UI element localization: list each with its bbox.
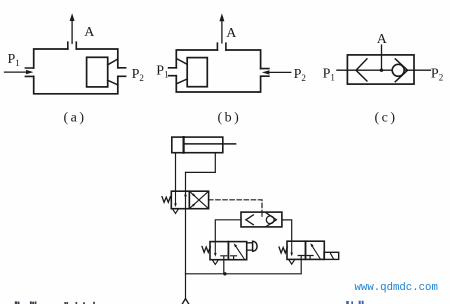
shuttle valve SV body [241, 212, 282, 227]
V1 exhaust path arrow down [174, 191, 177, 207]
valve body (b) [176, 50, 260, 92]
cylinder piston [183, 137, 185, 153]
ball seat chevron (c) [395, 59, 407, 82]
V1 exhaust triangle [172, 209, 178, 214]
V1 flow path arrow up [184, 192, 187, 196]
V1 crossed position X [189, 191, 208, 209]
line A (c) [381, 45, 383, 70]
port P2 nozzle stubs (b) [261, 69, 269, 77]
V3 spring W [279, 247, 287, 253]
V2 blocked port T right [231, 256, 237, 260]
cylinder body [172, 137, 223, 153]
V2 button actuator stem [247, 243, 253, 250]
check ball (c) [392, 64, 404, 76]
valve V1 pilot 3/2 body [171, 191, 208, 209]
wire cylinder right port elbow [186, 153, 216, 173]
pressure source triangle [182, 299, 190, 304]
flow arrow A up (b) [219, 13, 224, 43]
V1 spring W [162, 197, 170, 203]
poppet cone top (a) [108, 59, 118, 65]
V2 exhaust path arrow down [214, 242, 217, 257]
line P1 (c) [337, 69, 393, 71]
valve V2 button 3/2 body [210, 242, 247, 260]
V3 exhaust triangle [289, 259, 295, 264]
V3 blocked port T right [307, 256, 313, 260]
port P1 nozzle stubs (a) [25, 68, 33, 76]
pilot line dashed [209, 200, 262, 212]
wire V2 supply down [223, 260, 225, 274]
V3 exhaust path arrow down [290, 241, 293, 256]
SV pilot port stub [261, 212, 263, 216]
V2 spring W [202, 246, 210, 252]
wire SV right to V3 [282, 220, 292, 241]
V3 lever actuator box [324, 252, 339, 259]
wire supply riser through valve V1 [185, 172, 187, 273]
wire SV left to V2 [215, 220, 241, 242]
SV ball seat chevron [266, 213, 276, 227]
port A walls (a) [68, 42, 77, 49]
valve V3 lever 3/2 body [287, 241, 324, 259]
port A walls (b) [217, 43, 226, 50]
valve body (c) [347, 55, 414, 84]
V3 lever diagonal [330, 253, 333, 259]
line P2 (c) [404, 69, 430, 71]
poppet element (b) [187, 58, 207, 87]
poppet cone top (b) [176, 59, 187, 65]
cylinder piston rod [184, 143, 236, 145]
left seat chevron (c) [356, 59, 367, 81]
port P1 nozzle stubs (b) [169, 68, 177, 76]
SV left seat chevron [246, 215, 253, 225]
wire supply down to source [185, 274, 187, 299]
poppet cone bottom (b) [176, 79, 187, 84]
flow arrow A up (a) [70, 13, 75, 43]
wire V3 supply elbow [186, 259, 302, 273]
port P2 nozzle stubs (a) [118, 68, 126, 77]
flow arrow P2 in (b) [262, 70, 291, 74]
poppet cone bottom (a) [108, 80, 118, 85]
V2 exhaust triangle [212, 260, 218, 265]
V2 flow diagonal [234, 243, 244, 258]
node junction (c) [380, 69, 383, 72]
SV check ball [266, 216, 274, 224]
watermark url [355, 282, 438, 294]
poppet element (a) [87, 57, 108, 87]
V3 flow diagonal [310, 243, 320, 258]
wire cylinder left port down [175, 153, 177, 192]
node supply junction [223, 272, 226, 275]
V3 blocked port T left [298, 256, 304, 260]
valve body (a) [34, 49, 118, 94]
V2 blocked port T left [221, 256, 227, 260]
V2 button actuator cap [253, 241, 258, 251]
flow arrow P1 in (a) [5, 70, 34, 74]
